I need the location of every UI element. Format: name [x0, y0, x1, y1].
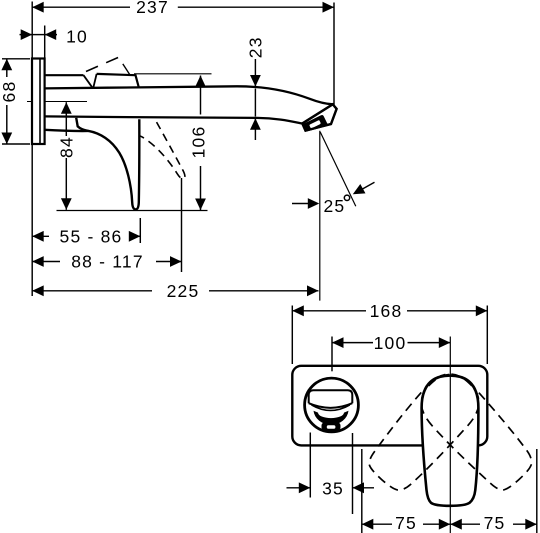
- svg-text:35: 35: [322, 479, 344, 499]
- svg-text:75: 75: [484, 513, 506, 533]
- svg-text:10: 10: [66, 27, 88, 47]
- svg-text:75: 75: [395, 513, 417, 533]
- svg-text:68: 68: [0, 81, 19, 103]
- svg-text:84: 84: [57, 136, 77, 158]
- svg-text:55 - 86: 55 - 86: [60, 226, 123, 246]
- svg-text:225: 225: [167, 281, 200, 301]
- svg-text:25: 25: [324, 196, 346, 216]
- svg-text:100: 100: [374, 333, 407, 353]
- svg-text:237: 237: [136, 0, 169, 17]
- svg-text:23: 23: [246, 36, 266, 58]
- svg-text:168: 168: [370, 301, 403, 321]
- svg-text:88 - 117: 88 - 117: [71, 252, 144, 272]
- svg-text:106: 106: [188, 126, 208, 159]
